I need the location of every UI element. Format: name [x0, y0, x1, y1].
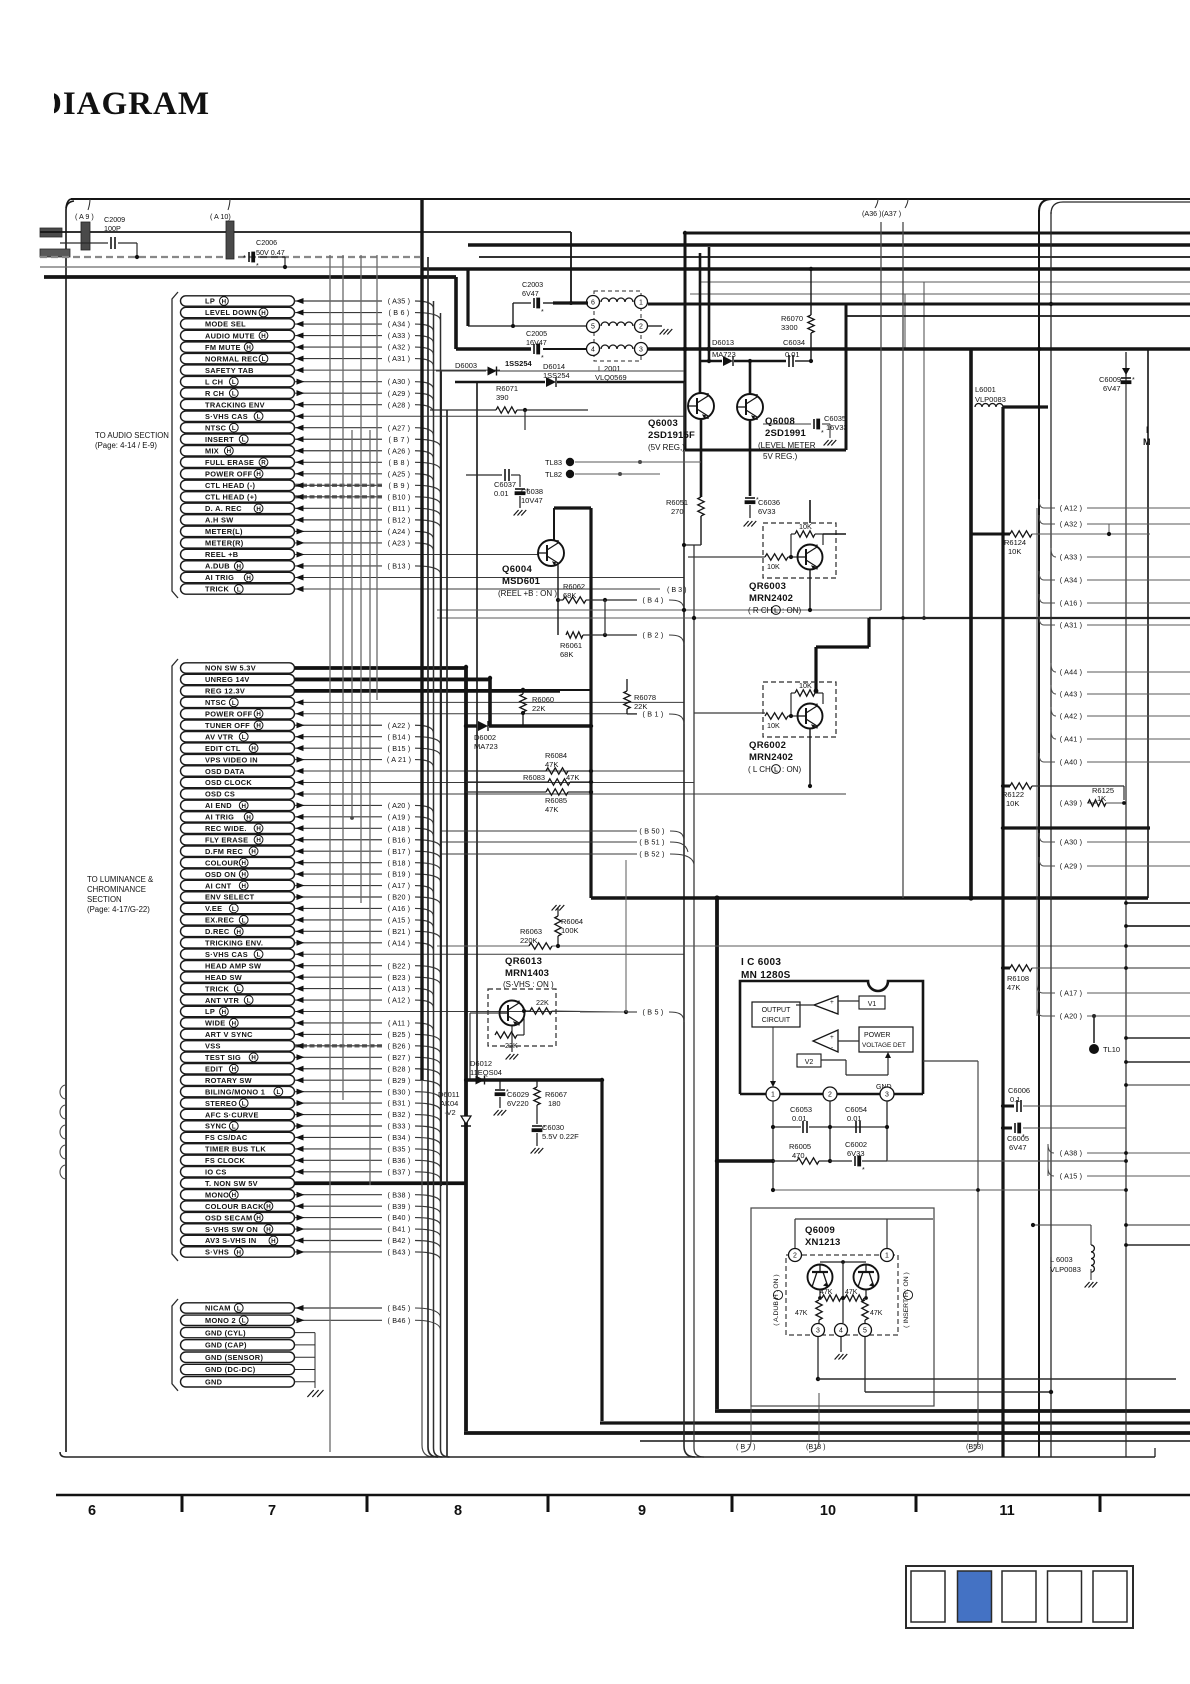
Q6009 pin 2: [789, 1249, 802, 1262]
svg-text:FS CLOCK: FS CLOCK: [205, 1156, 246, 1165]
svg-text:AUDIO MUTE: AUDIO MUTE: [205, 331, 255, 340]
svg-text:L: L: [242, 1101, 246, 1108]
svg-text:C2005: C2005: [526, 329, 547, 338]
wire power bus UNREG 14V: [295, 678, 491, 682]
svg-text:L6001: L6001: [975, 385, 996, 394]
svg-text:QR6013: QR6013: [505, 956, 542, 967]
svg-text:STEREO: STEREO: [205, 1099, 237, 1108]
svg-text:( A27 ): ( A27 ): [388, 423, 411, 432]
transistor Q6004 MSD601: [538, 540, 564, 566]
pin label SYNC: [181, 1121, 295, 1131]
svg-text:H: H: [241, 803, 246, 810]
svg-text:L: L: [774, 766, 778, 773]
wire power bus T. NON SW 5V: [295, 1181, 467, 1185]
wire bottom bus y1433: [464, 1431, 1190, 1435]
svg-text:T. NON SW 5V: T. NON SW 5V: [205, 1179, 258, 1188]
wire QR6003 collector up: [809, 500, 811, 523]
svg-text:L: L: [232, 379, 236, 386]
ground L6003: [1085, 1282, 1090, 1288]
svg-text:H: H: [232, 1192, 237, 1199]
svg-text:FULL ERASE: FULL ERASE: [205, 458, 254, 467]
svg-text:10K: 10K: [767, 562, 780, 571]
svg-text:XN1213: XN1213: [805, 1237, 841, 1248]
pin label BILING/MONO 1: [181, 1086, 295, 1096]
svg-text:LP: LP: [205, 297, 215, 306]
top-left bus wire y267 gray: [40, 266, 420, 268]
svg-text:S·VHS: S·VHS: [205, 1248, 229, 1257]
svg-text:C6006: C6006: [1008, 1086, 1030, 1095]
wire power bus NON SW 5.3V: [295, 666, 467, 670]
svg-text:HEAD SW: HEAD SW: [205, 973, 242, 982]
svg-text:2: 2: [639, 324, 643, 331]
pin label EX.REC: [181, 915, 295, 925]
svg-text:GND (DC-DC): GND (DC-DC): [205, 1365, 256, 1374]
capacitor C6035 16V33: [763, 423, 811, 425]
svg-text:D.REC: D.REC: [205, 927, 230, 936]
Q6009 pin 3: [812, 1324, 825, 1337]
svg-text:*: *: [526, 488, 529, 495]
svg-text:100K: 100K: [561, 926, 579, 935]
svg-text:FM MUTE: FM MUTE: [205, 343, 241, 352]
svg-text:H: H: [271, 1238, 276, 1245]
svg-text:C6002: C6002: [845, 1140, 867, 1149]
svg-text:( L CH: ( L CH: [748, 765, 771, 774]
svg-text:( A16 ): ( A16 ): [1060, 599, 1083, 608]
svg-text:AI CNT: AI CNT: [205, 881, 232, 890]
svg-text:-: -: [831, 1008, 833, 1015]
ground C6029: [494, 1110, 499, 1116]
wire vertical x370 gray: [369, 430, 371, 1185]
pin label MONO: [181, 1190, 295, 1200]
svg-text:R6085: R6085: [545, 796, 567, 805]
svg-text:H: H: [256, 1215, 261, 1222]
transistor pack Q6009 XN1213 outline: [751, 1208, 934, 1406]
svg-text:( B 7 ): ( B 7 ): [736, 1442, 756, 1451]
wire bus y898 (thick): [591, 896, 1148, 900]
pin label IO CS: [181, 1167, 295, 1177]
svg-text:TO LUMINANCE &: TO LUMINANCE &: [87, 875, 154, 884]
svg-text:H: H: [251, 849, 256, 856]
svg-text:( A 10): ( A 10): [210, 212, 231, 221]
bus wire vertical x428: [428, 257, 438, 1457]
wire vertical x343 gray: [342, 255, 344, 1100]
svg-text:FS CS/DAC: FS CS/DAC: [205, 1133, 248, 1142]
ground GND list: [307, 1390, 313, 1397]
svg-text:47K: 47K: [566, 773, 579, 782]
top bus wire y233 right segment: [685, 232, 1190, 235]
wire Q6009 base rail: [820, 1261, 866, 1263]
pin label FS CS/DAC: [181, 1132, 295, 1142]
pin label POWER OFF: [181, 469, 295, 479]
pin label INSERT: [181, 434, 295, 444]
wire x513 branch: [512, 303, 514, 326]
svg-text:( A25 ): ( A25 ): [388, 469, 411, 478]
pin label GND (CAP): [181, 1340, 295, 1350]
bottom-left thick bus wire y277: [44, 275, 456, 279]
svg-text:1: 1: [885, 1253, 889, 1260]
top bus gray y282: [700, 281, 1190, 283]
svg-text:(5V REG,): (5V REG,): [648, 443, 685, 452]
wire REG bus extension: [560, 689, 591, 691]
pin label FS CLOCK: [181, 1155, 295, 1165]
bus pin1 wire y302: [648, 303, 1190, 306]
pin label HEAD AMP SW: [181, 961, 295, 971]
svg-text:100P: 100P: [104, 224, 121, 233]
svg-text:*: *: [821, 430, 824, 437]
svg-text:50V 0.47: 50V 0.47: [256, 248, 285, 257]
svg-text:0.1: 0.1: [1010, 1095, 1020, 1104]
svg-text:( A15 ): ( A15 ): [1060, 1172, 1083, 1181]
pin label HEAD SW: [181, 972, 295, 982]
svg-text:UNREG 14V: UNREG 14V: [205, 675, 250, 684]
big box right: top edge y349: [971, 347, 1190, 351]
wire hop bumps on left border: [60, 1085, 66, 1179]
bus wire vertical x422: [420, 199, 423, 1080]
svg-text:L CH: L CH: [205, 377, 223, 386]
ruler base line: [56, 1494, 1190, 1497]
svg-text:I: I: [1146, 425, 1149, 435]
pin label TRICK: [181, 584, 295, 594]
svg-text:C6036: C6036: [758, 498, 780, 507]
svg-text:22K: 22K: [536, 998, 549, 1007]
svg-text:R6071: R6071: [496, 384, 518, 393]
node B1: [627, 713, 637, 715]
svg-text:ROTARY SW: ROTARY SW: [205, 1076, 252, 1085]
svg-text:47K: 47K: [820, 1289, 833, 1296]
svg-text:2: 2: [793, 1253, 797, 1260]
svg-text:C6005: C6005: [1007, 1134, 1029, 1143]
svg-text:MONO: MONO: [205, 1190, 229, 1199]
svg-text:S·VHS SW ON: S·VHS SW ON: [205, 1225, 258, 1234]
svg-text:47K: 47K: [870, 1310, 883, 1317]
svg-text:( B 3 ): ( B 3 ): [667, 585, 687, 594]
svg-text:R6061: R6061: [560, 641, 582, 650]
svg-text:( A.DUB H : ON ): ( A.DUB H : ON ): [773, 1274, 780, 1325]
svg-text:COLOUR: COLOUR: [205, 858, 239, 867]
node B5: [580, 1011, 626, 1013]
svg-text:VOLTAGE DET: VOLTAGE DET: [862, 1042, 906, 1049]
svg-text:VPS VIDEO IN: VPS VIDEO IN: [205, 755, 258, 764]
pin label CTL HEAD (+): [181, 492, 295, 502]
pin label D.REC: [181, 926, 295, 936]
pin label GND (SENSOR): [181, 1352, 295, 1362]
pin label AI TRIG: [181, 572, 295, 582]
svg-text:AV VTR: AV VTR: [205, 732, 234, 741]
wire pin3 right thick: [648, 347, 971, 350]
pin label WIDE: [181, 1018, 295, 1028]
svg-text:( B28 ): ( B28 ): [388, 1064, 411, 1073]
svg-text:( B 8 ): ( B 8 ): [389, 458, 410, 467]
pin label TRICKING ENV.: [181, 938, 295, 948]
svg-text:( B32 ): ( B32 ): [388, 1110, 411, 1119]
svg-text:( A19 ): ( A19 ): [388, 812, 411, 821]
wire pin1 net lower: [773, 1189, 1126, 1191]
svg-text:( B18 ): ( B18 ): [388, 858, 411, 867]
svg-text:H: H: [237, 1249, 242, 1256]
svg-text:D6002: D6002: [474, 733, 496, 742]
ground Q6009 pin4: [840, 1337, 842, 1352]
navigation page box: [1002, 1571, 1036, 1622]
svg-text:( A43 ): ( A43 ): [1060, 690, 1083, 699]
transformer L2001 VLQ0569: [594, 291, 641, 361]
pin label OSD ON: [181, 869, 295, 879]
pin label ANT VTR: [181, 995, 295, 1005]
svg-text:I C 6003: I C 6003: [741, 957, 781, 968]
svg-text:H: H: [246, 575, 251, 582]
svg-text:H: H: [251, 1055, 256, 1062]
svg-text:0.01: 0.01: [494, 489, 509, 498]
svg-text:( B26 ): ( B26 ): [388, 1041, 411, 1050]
svg-text:R CH: R CH: [205, 389, 224, 398]
ruler tick: [915, 1495, 918, 1512]
svg-text:47K: 47K: [545, 760, 558, 769]
node B51: [440, 841, 637, 843]
svg-text:TL83: TL83: [545, 458, 562, 467]
svg-text:L: L: [242, 437, 246, 444]
svg-text:CHROMINANCE: CHROMINANCE: [87, 885, 146, 894]
wire B53 stub: [923, 1060, 978, 1062]
svg-text:MN 1280S: MN 1280S: [741, 970, 791, 981]
svg-text:8: 8: [454, 1503, 462, 1519]
svg-text:R6063: R6063: [520, 927, 542, 936]
pin label VPS VIDEO IN: [181, 754, 295, 764]
wire vertical x694: [694, 545, 704, 1457]
wire vertical x447: [446, 410, 448, 1457]
block POWER VOLTAGE DET: [859, 1027, 913, 1052]
svg-text:( A13 ): ( A13 ): [388, 984, 411, 993]
svg-text:R: R: [261, 460, 266, 467]
svg-text:( B29 ): ( B29 ): [388, 1076, 411, 1085]
wire bottom bus y1441: [640, 1440, 1190, 1442]
pin label FM MUTE: [181, 342, 295, 352]
border bottom y1457: [60, 1452, 1155, 1457]
svg-text:1: 1: [771, 1092, 775, 1099]
transistor QR6003 MRN2402: [763, 523, 836, 578]
pin label TUNER OFF: [181, 720, 295, 730]
svg-text:10K: 10K: [767, 721, 780, 730]
IC pin 1: [766, 1087, 780, 1101]
svg-text:H: H: [256, 471, 261, 478]
ground transformer: [660, 329, 665, 335]
svg-text:H: H: [256, 837, 261, 844]
svg-text:( B 7 ): ( B 7 ): [389, 435, 410, 444]
pin label A.H SW: [181, 515, 295, 525]
pin label EDIT CTL: [181, 743, 295, 753]
pin label SAFETY TAB: [181, 365, 295, 375]
pin label OSD CLOCK: [181, 777, 295, 787]
wire junction x605: [603, 598, 607, 602]
Q6009 pin 1: [881, 1249, 894, 1262]
svg-text:( A14 ): ( A14 ): [388, 938, 411, 947]
svg-text:FLY ERASE: FLY ERASE: [205, 835, 248, 844]
svg-text:L: L: [774, 607, 778, 614]
svg-text:4: 4: [591, 347, 595, 354]
svg-text:6V47: 6V47: [522, 289, 539, 298]
wire vertical x1148: [1147, 349, 1149, 898]
svg-text:C6009: C6009: [1099, 375, 1121, 384]
svg-text:(LEVEL METER: (LEVEL METER: [758, 441, 816, 450]
svg-text:( A31 ): ( A31 ): [1060, 621, 1083, 630]
pin label GND: [181, 1377, 295, 1387]
svg-text:METER(L): METER(L): [205, 527, 243, 536]
wire IC bottom edge: [740, 1093, 766, 1096]
svg-text:( B 6 ): ( B 6 ): [389, 308, 410, 317]
wire QR6003 base left: [688, 556, 765, 558]
wire bottom bus y1411 (thick): [715, 1409, 1190, 1413]
svg-text:( B41 ): ( B41 ): [388, 1225, 411, 1234]
svg-text:9: 9: [638, 1503, 646, 1519]
svg-text:MODE SEL: MODE SEL: [205, 320, 246, 329]
pin label AI CNT: [181, 880, 295, 890]
pin label NICAM: [181, 1303, 295, 1313]
svg-text:( A 9 ): ( A 9 ): [75, 212, 94, 221]
pin label LEVEL DOWN: [181, 307, 295, 317]
wire QR6002 base left: [694, 712, 765, 714]
pin label GND (CYL): [181, 1327, 295, 1337]
top bus wire y232 left segment: [40, 231, 571, 233]
svg-text:( B31 ): ( B31 ): [388, 1099, 411, 1108]
pin label TRACKING ENV: [181, 399, 295, 409]
svg-text:AI TRIG: AI TRIG: [205, 573, 234, 582]
svg-text:R6064: R6064: [561, 917, 583, 926]
svg-text:C2009: C2009: [104, 215, 125, 224]
svg-text:V.EE: V.EE: [205, 904, 222, 913]
pin label S·VHS: [181, 1247, 295, 1257]
wire y618 thick right: [869, 617, 1190, 619]
svg-text:( B39 ): ( B39 ): [388, 1202, 411, 1211]
svg-text:R6051: R6051: [666, 498, 688, 507]
wire QR6002 emitter down: [809, 729, 811, 786]
transistor Q6003 2SD1915F: [688, 393, 714, 419]
svg-text:VLP0083: VLP0083: [975, 395, 1006, 404]
svg-text:( B45 ): ( B45 ): [388, 1304, 411, 1313]
svg-text:GND (CAP): GND (CAP): [205, 1341, 247, 1350]
svg-text:NICAM: NICAM: [205, 1304, 231, 1313]
IC pin 2: [823, 1087, 837, 1101]
svg-text:H: H: [246, 814, 251, 821]
wire C6002 net right: [887, 1160, 1126, 1162]
svg-text:6: 6: [88, 1503, 96, 1519]
svg-text:OUTPUT: OUTPUT: [762, 1007, 792, 1014]
svg-text:A.DUB: A.DUB: [205, 562, 230, 571]
svg-text:M: M: [1143, 437, 1151, 447]
svg-text:( B17 ): ( B17 ): [388, 847, 411, 856]
svg-text:H: H: [256, 723, 261, 730]
svg-text:( A 21 ): ( A 21 ): [387, 755, 411, 764]
wire to B3 net: [684, 544, 701, 546]
svg-text:( A26 ): ( A26 ): [388, 446, 411, 455]
junction dots misc: [464, 665, 468, 669]
pin label TIMER BUS TLK: [181, 1144, 295, 1154]
svg-text:47K: 47K: [795, 1310, 808, 1317]
wire vertical x466 (NON SW 5.3V): [464, 667, 468, 1431]
wire vertical x490 (UNREG 14V): [488, 678, 492, 726]
pin label STEREO: [181, 1098, 295, 1108]
pin label OSD CS: [181, 789, 295, 799]
svg-text:6: 6: [591, 300, 595, 307]
svg-text:D6012: D6012: [470, 1059, 492, 1068]
svg-text:TL10: TL10: [1103, 1045, 1120, 1054]
svg-text:R6108: R6108: [1007, 974, 1029, 983]
svg-text:*: *: [506, 1089, 509, 1096]
svg-text:( A39 ): ( A39 ): [1060, 799, 1083, 808]
svg-text:L: L: [232, 1123, 236, 1130]
svg-text:METER(R): METER(R): [205, 539, 244, 548]
ground C6036: [744, 521, 749, 527]
pin label COLOUR BACK: [181, 1201, 295, 1211]
wire B13 vertical: [818, 1393, 820, 1440]
svg-text:( A18 ): ( A18 ): [388, 824, 411, 833]
svg-text:REC WIDE.: REC WIDE.: [205, 824, 247, 833]
wire thick L y1080: [466, 1078, 602, 1081]
wire vertical x477: [476, 382, 478, 1080]
svg-text:( B 1 ): ( B 1 ): [643, 710, 664, 719]
test point TL10: [1092, 1014, 1096, 1018]
svg-text:C6037: C6037: [494, 480, 516, 489]
svg-text:POWER OFF: POWER OFF: [205, 470, 253, 479]
svg-text:TRICKING ENV.: TRICKING ENV.: [205, 939, 263, 948]
svg-text:SYNC: SYNC: [205, 1122, 227, 1131]
svg-text:( B20 ): ( B20 ): [388, 893, 411, 902]
svg-text:TEST SIG: TEST SIG: [205, 1053, 241, 1062]
op-amp 2: [813, 1030, 838, 1052]
svg-text:( A34 ): ( A34 ): [388, 320, 411, 329]
svg-text:( A11 ): ( A11 ): [388, 1019, 410, 1028]
svg-text:( B 9 ): ( B 9 ): [389, 481, 410, 490]
pin label AI TRIG: [181, 812, 295, 822]
svg-text:Q6003: Q6003: [648, 418, 678, 429]
svg-text:INSERT: INSERT: [205, 435, 234, 444]
transistor Q6008 2SD1991: [737, 394, 763, 420]
pin label TEST SIG: [181, 1052, 295, 1062]
svg-text:( A17 ): ( A17 ): [388, 881, 411, 890]
svg-text:L 6003: L 6003: [1050, 1255, 1073, 1264]
svg-text:2: 2: [828, 1092, 832, 1099]
svg-text:68K: 68K: [560, 650, 573, 659]
wires inside IC: [796, 1004, 814, 1006]
svg-text:11: 11: [999, 1503, 1014, 1519]
wire y618 gray: [437, 617, 869, 619]
wire y610 gray: [437, 609, 881, 611]
capacitor C6036 6V33: [749, 450, 752, 496]
svg-text:( B 5 ): ( B 5 ): [643, 1008, 664, 1017]
navigation page box: [1093, 1571, 1127, 1622]
wire vertical x1048 tag feeder: [1047, 1144, 1049, 1176]
svg-text:L: L: [242, 917, 246, 924]
svg-text:L: L: [247, 997, 251, 1004]
pin label FLY ERASE: [181, 835, 295, 845]
pin label AFC S·CURVE: [181, 1109, 295, 1119]
svg-text:WIDE: WIDE: [205, 1019, 226, 1028]
pin label LP: [181, 1006, 295, 1016]
ground C6035: [824, 440, 829, 446]
svg-text:TRACKING ENV: TRACKING ENV: [205, 400, 265, 409]
pin label ENV SELECT: [181, 892, 295, 902]
svg-text:( B14 ): ( B14 ): [388, 732, 411, 741]
pin label MONO 2: [181, 1315, 295, 1325]
wire A32 jog: [1087, 523, 1109, 525]
dashed boundary Q6009: [786, 1255, 898, 1335]
svg-text:( A12 ): ( A12 ): [388, 996, 411, 1005]
wire 22K to B5: [552, 1011, 626, 1012]
svg-text:C6034: C6034: [783, 338, 805, 347]
pin label EDIT: [181, 1064, 295, 1074]
navigation strip: [906, 1566, 1133, 1628]
svg-text:47K: 47K: [1007, 983, 1020, 992]
svg-text:(S·VHS : ON ): (S·VHS : ON ): [503, 980, 554, 989]
ruler tick: [1099, 1495, 1102, 1512]
svg-text:*: *: [862, 1167, 865, 1174]
